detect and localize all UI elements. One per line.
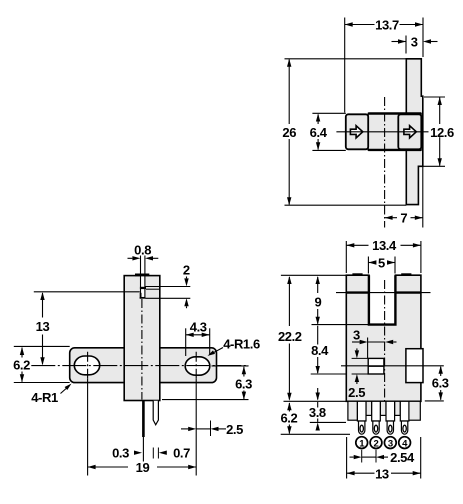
svg-text:19: 19 — [136, 460, 150, 475]
svg-text:0.8: 0.8 — [134, 243, 151, 258]
front view: right mounting hole — [185, 357, 210, 375]
front view: right pin (0.7) — [153, 401, 158, 425]
svg-text:6.2: 6.2 — [280, 411, 297, 426]
svg-text:12.6: 12.6 — [430, 125, 454, 140]
dimension 2.5 (square height) — [356, 348, 358, 350]
dimension 13 (axis to hole center) — [42, 293, 44, 318]
side view: sensor housing middle block — [368, 113, 421, 150]
svg-text:6.4: 6.4 — [310, 125, 328, 140]
svg-text:2.54: 2.54 — [390, 450, 415, 465]
pin 4 base — [400, 401, 409, 421]
pin view: left foot — [348, 401, 358, 420]
pin 3 base — [386, 401, 395, 421]
front view: optical axis line (left) — [34, 291, 140, 293]
pin view: slot bottom extension line — [312, 324, 369, 326]
svg-text:6.2: 6.2 — [13, 358, 30, 373]
svg-text:4-R1: 4-R1 — [31, 390, 58, 405]
svg-text:5: 5 — [378, 255, 385, 270]
dimension 13 (pin span) — [347, 472, 375, 474]
dimension 5 (slot width) — [368, 262, 374, 264]
pin number circle 2 — [370, 437, 382, 449]
pin number circle 1 — [356, 437, 368, 449]
extension lines left of body — [281, 274, 346, 276]
pin view: gray blocks between pins — [366, 401, 372, 415]
svg-text:13: 13 — [375, 466, 389, 481]
side view: optical axis line — [336, 131, 428, 133]
dimension 6.3 (tab) — [440, 367, 442, 376]
dimension 0.7 (right pin) — [159, 451, 167, 455]
side view: emitter block — [346, 114, 368, 149]
front view: slit top bold mark — [135, 274, 149, 277]
dimension 6.2 (plate width) — [21, 348, 23, 358]
svg-text:2: 2 — [374, 438, 379, 449]
dimension chain 22.2 / 6.2 — [288, 277, 290, 326]
svg-text:2.5: 2.5 — [348, 385, 365, 400]
pin 2 lead with rounded tip — [373, 421, 379, 434]
front view: vertical tower — [124, 276, 160, 401]
svg-text:4.3: 4.3 — [190, 320, 207, 335]
front view: optical slit — [141, 276, 144, 296]
svg-text:3: 3 — [388, 438, 393, 449]
svg-text:7: 7 — [400, 211, 407, 226]
svg-text:2.5: 2.5 — [226, 422, 243, 437]
svg-text:6.3: 6.3 — [432, 375, 449, 390]
svg-text:13.4: 13.4 — [372, 238, 397, 253]
svg-text:0.7: 0.7 — [173, 446, 190, 461]
dimension 13.4 (body width) — [346, 244, 368, 246]
pin number circle 4 — [399, 437, 411, 449]
side view: vertical center line (dash-dot) — [384, 97, 386, 228]
front view: mounting plate with rounded corners — [70, 348, 217, 383]
svg-text:9: 9 — [314, 294, 321, 309]
svg-text:3: 3 — [353, 328, 360, 343]
pin view: element square — [368, 358, 384, 374]
svg-text:13.7: 13.7 — [375, 18, 399, 33]
svg-text:4-R1.6: 4-R1.6 — [223, 336, 260, 351]
pin 1 base — [357, 401, 366, 421]
svg-text:3: 3 — [411, 34, 418, 49]
pin view: right foot — [409, 401, 420, 420]
svg-text:22.2: 22.2 — [278, 329, 302, 344]
pin view: slot top bold marks — [352, 273, 362, 276]
pin 4 lead with rounded tip — [401, 421, 407, 434]
side view: detector block — [398, 114, 421, 149]
pin view: center line (dash-dot) — [384, 280, 386, 402]
pin 1 lead with rounded tip — [359, 421, 365, 434]
dimension 3 (plate thickness) — [392, 41, 399, 43]
front view: left mounting hole — [74, 356, 99, 375]
front view: hole horizontal center line — [31, 365, 248, 367]
pin view: optical axis line — [336, 292, 431, 294]
dimension 7 (bottom offset) — [385, 217, 397, 219]
svg-text:8.4: 8.4 — [311, 343, 329, 358]
pin 3 lead with rounded tip — [387, 421, 393, 434]
svg-text:26: 26 — [282, 125, 296, 140]
dimension chain 9 / 8.4 / 3.8 — [317, 277, 319, 293]
side view: detector beam arrow — [404, 126, 416, 138]
side view: vertical plate outline — [406, 59, 423, 205]
front view: sensing element marks — [140, 287, 146, 289]
svg-text:3.8: 3.8 — [309, 405, 326, 420]
pin 2 base — [372, 401, 381, 421]
pin view: body outline with slot — [346, 275, 421, 401]
dimension 6.4 (block height) — [317, 115, 319, 125]
front view: left pin (0.3) — [142, 401, 145, 437]
dimension 6.3 (hole center to tower bottom) — [243, 367, 245, 377]
pin view: right side tab — [406, 349, 423, 383]
svg-text:0.3: 0.3 — [112, 446, 129, 461]
svg-text:13: 13 — [36, 319, 50, 334]
dimension 13.7 (top) — [345, 24, 375, 26]
svg-text:2: 2 — [183, 263, 190, 278]
svg-text:6.3: 6.3 — [235, 377, 252, 392]
pin view: receiver axis line — [341, 365, 444, 367]
dimension 2.5 (hole center to hole end) — [181, 428, 189, 430]
dimension 26 (overall height) — [288, 60, 290, 125]
dimension 2.54 (pin pitch) — [350, 456, 354, 458]
front view: tower center line (dash-dot) — [141, 299, 143, 400]
pin number circle 3 — [384, 437, 396, 449]
side view: emitter beam arrow — [350, 126, 362, 138]
dimension 19 (hole pitch) — [88, 466, 128, 468]
dimension 12.6 (right) — [439, 98, 441, 125]
